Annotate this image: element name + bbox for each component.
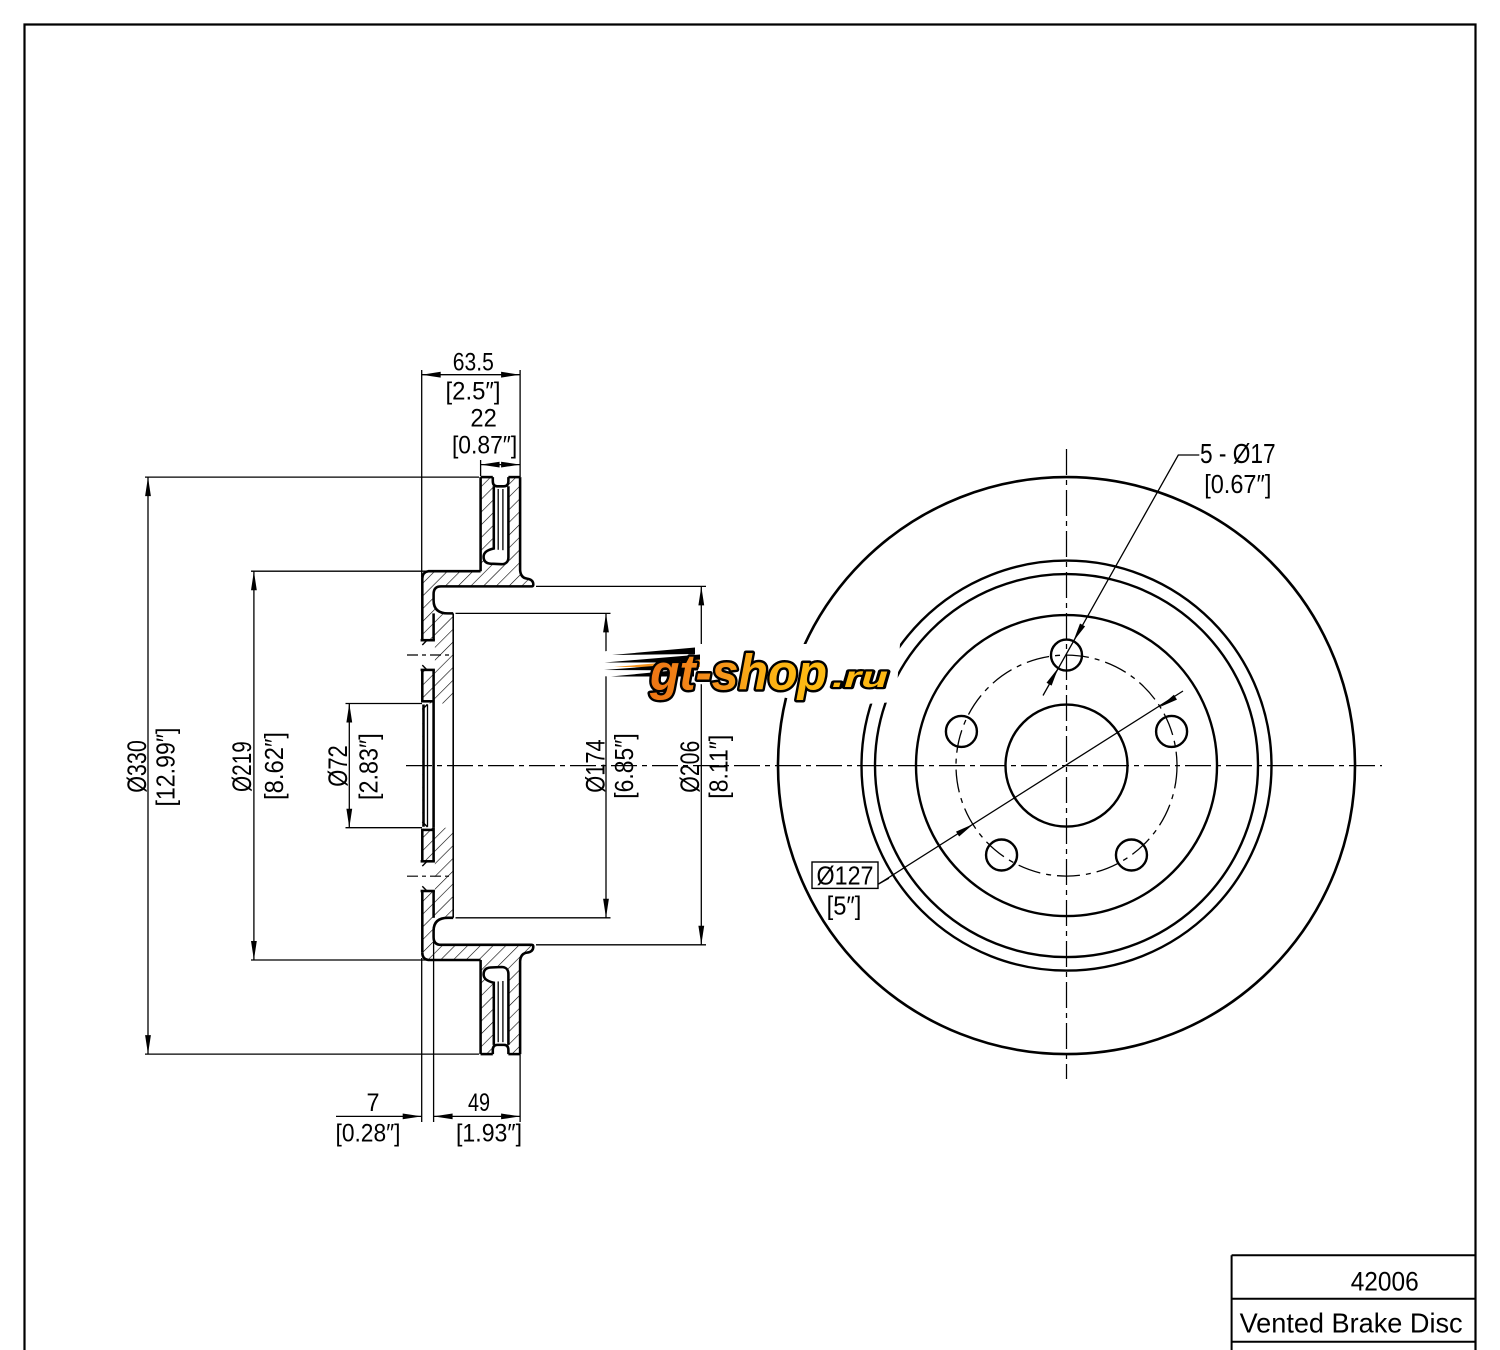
- svg-text:Ø219: Ø219: [227, 741, 257, 792]
- svg-text:[8.62″]: [8.62″]: [261, 732, 289, 800]
- svg-text:[12.99″]: [12.99″]: [153, 728, 181, 807]
- svg-text:Ø127: Ø127: [817, 861, 874, 891]
- svg-text:22: 22: [470, 405, 496, 433]
- svg-text:.ru: .ru: [832, 661, 888, 694]
- svg-text:[5″]: [5″]: [827, 891, 862, 921]
- svg-text:42006: 42006: [1351, 1267, 1419, 1297]
- svg-text:49: 49: [468, 1089, 490, 1117]
- svg-text:5 - Ø17: 5 - Ø17: [1200, 438, 1276, 469]
- svg-text:[2.5″]: [2.5″]: [446, 378, 501, 406]
- svg-text:Ø206: Ø206: [675, 741, 705, 793]
- svg-text:7: 7: [367, 1089, 380, 1117]
- svg-text:Vented Brake Disc: Vented Brake Disc: [1240, 1308, 1463, 1339]
- svg-text:[2.83″]: [2.83″]: [356, 733, 384, 800]
- svg-text:[0.87″]: [0.87″]: [452, 432, 517, 460]
- svg-text:63.5: 63.5: [453, 349, 494, 377]
- svg-text:[0.28″]: [0.28″]: [336, 1120, 401, 1148]
- svg-text:Ø72: Ø72: [323, 745, 353, 786]
- svg-text:Ø174: Ø174: [581, 739, 611, 792]
- svg-text:[1.93″]: [1.93″]: [456, 1120, 522, 1148]
- svg-text:[6.85″]: [6.85″]: [611, 733, 639, 798]
- svg-text:Ø330: Ø330: [122, 740, 152, 793]
- svg-text:[8.11″]: [8.11″]: [706, 735, 734, 799]
- svg-text:gt-shop: gt-shop: [649, 645, 827, 701]
- svg-text:[0.67″]: [0.67″]: [1204, 469, 1271, 499]
